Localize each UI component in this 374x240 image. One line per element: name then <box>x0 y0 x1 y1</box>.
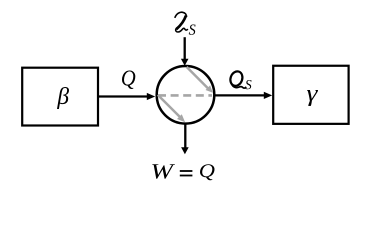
label W <box>152 164 175 179</box>
label equals sign <box>180 170 193 172</box>
box beta <box>22 68 98 126</box>
wire Qs arrow <box>214 92 272 99</box>
gray arrow Ls to Qs <box>187 67 213 93</box>
label Qs (script Q with subscript S) <box>228 70 251 90</box>
label Q (of W = Q) <box>200 164 215 180</box>
label Ls (script L with subscript S) <box>175 12 196 35</box>
label beta <box>57 87 69 109</box>
wire Q arrow <box>99 93 156 100</box>
box gamma <box>273 66 348 124</box>
gray arrow Q to W <box>158 95 185 122</box>
label Q <box>122 70 135 89</box>
gray dashed line Q to Qs <box>158 94 212 97</box>
wire W arrow (bottom) <box>181 124 189 154</box>
wire Ls arrow (top) <box>181 37 189 66</box>
label gamma <box>307 90 318 106</box>
junction circle <box>157 66 215 124</box>
